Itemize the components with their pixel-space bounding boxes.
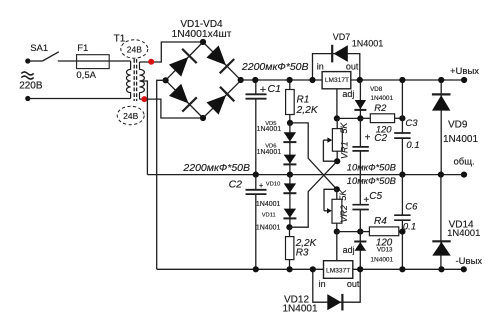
svg-text:R4: R4 (374, 216, 387, 227)
svg-text:0,5A: 0,5A (76, 70, 96, 81)
node R3 bottom (287, 266, 293, 272)
svg-text:1N4001x4шт: 1N4001x4шт (172, 29, 232, 40)
node chain mid (287, 172, 293, 178)
diode VD13 (359, 232, 361, 270)
capacitor C2 (255, 175, 257, 190)
switch SA1 (43, 52, 59, 61)
svg-text:2200мкФ*50В: 2200мкФ*50В (241, 61, 309, 73)
svg-text:LM337T: LM337T (326, 268, 350, 275)
node R3 top (286, 224, 292, 230)
node C3 top (399, 77, 405, 83)
svg-text:24В: 24В (127, 44, 142, 54)
node VR2 top (334, 186, 340, 192)
svg-text:1N4001: 1N4001 (256, 225, 281, 232)
node: AC input top terminal (25, 58, 30, 63)
wire (289, 80, 291, 90)
wire adj pin (336, 89, 338, 119)
svg-text:120: 120 (376, 237, 393, 248)
node bridge top (200, 39, 206, 45)
node VD14 bottom (438, 266, 444, 272)
node -Uвых terminal (461, 266, 467, 272)
svg-text:24В: 24В (123, 111, 138, 121)
node bridge left (163, 77, 169, 83)
node R4 right (399, 229, 405, 235)
transformer core (133, 59, 135, 101)
diode VD4 (bridge bottom-right) (207, 95, 227, 115)
label 24В top (dashed ellipse) (121, 40, 148, 58)
AC symbol (21, 72, 33, 75)
diode VD3 (bridge left-bottom) (169, 84, 189, 104)
wire center tap to common rail (140, 81, 148, 175)
diode VD8 (359, 80, 361, 118)
diode VD5 (284, 132, 296, 141)
wire diode chain lower (289, 175, 291, 228)
node R1 top (287, 77, 293, 83)
svg-text:1N4001: 1N4001 (257, 126, 282, 133)
wire VD7 bypass (313, 54, 360, 80)
svg-text:R3: R3 (296, 247, 309, 258)
node VD12 left (310, 266, 316, 272)
potentiometer VR1 (332, 129, 342, 152)
svg-text:in: in (317, 61, 324, 71)
svg-text:1N4001: 1N4001 (256, 201, 281, 208)
capacitor C2 (10мкФ) (359, 118, 361, 146)
node C1 bottom (253, 172, 259, 178)
svg-text:out: out (347, 279, 360, 289)
node VD12 right (357, 266, 363, 272)
diode VD6 (284, 155, 296, 164)
wire bridge left to minus rail (157, 80, 166, 269)
svg-text:C5: C5 (369, 191, 382, 202)
wire (28, 98, 131, 100)
svg-text:5K: 5K (339, 122, 349, 134)
capacitor C5 (10мкФ) (359, 175, 361, 205)
wire adj to R2 (337, 117, 361, 119)
node: AC input bottom terminal (25, 96, 30, 101)
transformer T1 primary winding (126, 61, 130, 99)
wire R1-node to VR2 top (crossover) (290, 123, 337, 189)
wire adj to R4 (337, 231, 361, 233)
svg-text:LM317T: LM317T (325, 77, 349, 84)
svg-text:SA1: SA1 (30, 43, 48, 54)
svg-text:R1: R1 (297, 95, 310, 106)
diode VD11 (284, 209, 296, 218)
node bridge right (238, 77, 244, 83)
wire (336, 223, 338, 231)
node C3 bottom (399, 172, 405, 178)
svg-text:+: + (259, 181, 264, 190)
wire -V bottom rail (157, 268, 464, 270)
node adj 337 (357, 229, 363, 235)
diode VD12 (327, 294, 341, 310)
capacitor C6 (401, 175, 403, 216)
wire +V top rail (241, 79, 464, 81)
wire VD12 bypass (313, 269, 360, 302)
svg-text:10мкФ*50В: 10мкФ*50В (347, 175, 396, 186)
resistor R3 (286, 237, 294, 260)
wire (336, 151, 338, 161)
svg-text:C3: C3 (405, 118, 418, 129)
svg-text:VD8: VD8 (370, 86, 383, 93)
resistor R1 (286, 90, 295, 115)
diode VD1 (bridge left-top) (169, 57, 188, 77)
svg-text:220В: 220В (19, 81, 43, 92)
diode VD9 (440, 80, 442, 175)
svg-text:2,2K: 2,2K (296, 105, 319, 116)
node VR2 bottom (334, 229, 340, 235)
diode VD10 (284, 183, 296, 192)
svg-text:+: + (365, 133, 371, 144)
svg-text:VD7: VD7 (333, 32, 351, 42)
wire secondary top to bridge (140, 42, 204, 62)
node VD9 top (438, 77, 444, 83)
node adj (334, 115, 340, 121)
bridge wire (166, 42, 203, 80)
node R1 bottom (287, 120, 293, 126)
diode VD2 (bridge top-right) (206, 46, 226, 66)
svg-text:in: in (319, 279, 326, 289)
node общ terminal (461, 172, 467, 178)
svg-text:R2: R2 (374, 103, 387, 114)
regulator U1 LM317T (322, 72, 351, 89)
svg-text:VD9: VD9 (448, 120, 468, 131)
node VR1 bottom (334, 158, 340, 164)
svg-text:1N4001: 1N4001 (257, 149, 282, 156)
polarity dot (red) top (148, 59, 154, 65)
svg-text:F1: F1 (77, 43, 88, 54)
svg-text:+: + (260, 84, 266, 96)
svg-text:C2: C2 (374, 133, 387, 144)
wire (28, 60, 43, 62)
svg-text:1N4001: 1N4001 (370, 257, 393, 264)
label 24В bottom (dashed ellipse) (117, 106, 144, 124)
wire (58, 60, 131, 62)
diode VD14 (440, 175, 442, 270)
wire (289, 227, 291, 236)
svg-text:VR1: VR1 (339, 141, 349, 159)
wire (336, 118, 338, 128)
node C2 bottom (253, 266, 259, 272)
svg-text:C1: C1 (268, 83, 281, 95)
wire (289, 260, 291, 270)
svg-text:out: out (346, 61, 359, 71)
svg-text:adj: adj (343, 245, 355, 255)
svg-text:1N4001: 1N4001 (443, 134, 478, 145)
wire R3-node to VR1 bottom (crossover) (289, 161, 337, 227)
svg-text:2200мкФ*50В: 2200мкФ*50В (182, 162, 250, 174)
svg-text:VD10: VD10 (266, 182, 281, 188)
node VD8 bottom (357, 115, 363, 121)
svg-text:1N4001: 1N4001 (447, 228, 480, 239)
resistor R2 (360, 117, 370, 119)
wire (336, 189, 338, 199)
diode VD7 (334, 45, 348, 62)
svg-text:1N4001: 1N4001 (370, 95, 393, 102)
svg-text:C2: C2 (229, 179, 243, 191)
svg-text:1N4001: 1N4001 (352, 38, 384, 48)
svg-text:1N4001: 1N4001 (283, 304, 318, 315)
wire adj pin (337) (336, 232, 338, 261)
node bridge bottom (200, 115, 206, 121)
capacitor C3 (401, 80, 403, 133)
svg-text:0.1: 0.1 (406, 140, 419, 151)
polarity dot (red) bottom (141, 96, 147, 102)
regulator U2 LM337T (324, 261, 353, 279)
node +Uвых terminal (461, 77, 467, 83)
node C6 bottom (399, 266, 405, 272)
transformer T1 secondary winding (140, 62, 145, 99)
capacitor C1 (255, 80, 257, 94)
svg-text:T1: T1 (114, 33, 126, 44)
fuse F1 (77, 55, 110, 69)
node VD7 right (357, 77, 363, 83)
svg-text:C6: C6 (405, 202, 418, 213)
svg-text:-Uвых: -Uвых (456, 256, 483, 267)
svg-text:adj: adj (342, 89, 354, 99)
svg-text:VR2: VR2 (339, 205, 349, 223)
svg-text:+Uвых: +Uвых (450, 66, 479, 77)
svg-text:5K: 5K (338, 189, 348, 201)
potentiometer VR2 (332, 199, 342, 223)
wire diode chain upper (289, 123, 291, 175)
svg-text:общ.: общ. (454, 156, 475, 167)
node C1 top (252, 77, 258, 83)
svg-text:VD11: VD11 (262, 212, 276, 218)
wire common rail (147, 174, 464, 176)
svg-text:10мкФ*50В: 10мкФ*50В (347, 161, 396, 172)
node R2 right (399, 115, 405, 121)
resistor R4 (360, 231, 369, 233)
wire (289, 115, 291, 123)
node VD9 bottom (438, 172, 444, 178)
wire secondary bottom to bridge (140, 99, 204, 118)
node VD7 left (309, 77, 315, 83)
